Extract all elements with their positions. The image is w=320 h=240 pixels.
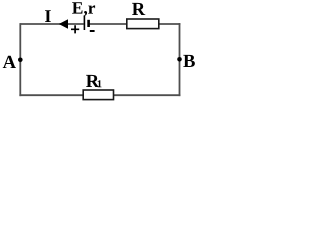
battery minus sign [90, 30, 95, 32]
wire: right side through node B [179, 23, 181, 96]
battery plus sign [71, 25, 79, 33]
battery: positive long plate [83, 16, 85, 30]
label R1 subscript 1 [98, 80, 102, 87]
label E,r (emf, internal resistance) [72, 2, 95, 16]
label I [45, 10, 51, 22]
wire: resistor R to top-right corner [159, 23, 181, 25]
battery: negative short plate [87, 20, 90, 27]
wire: top-left segment (corner to battery) [20, 23, 83, 25]
wire: R1 to bottom-right corner [113, 94, 180, 96]
node A junction dot [18, 58, 23, 63]
current arrow I (pointing left) [59, 19, 68, 28]
resistor R box [127, 19, 159, 29]
wire: left side through node A [19, 23, 21, 96]
node B junction dot [177, 57, 182, 62]
label R1 [86, 75, 99, 87]
label A [3, 56, 16, 68]
label R [132, 3, 145, 15]
resistor R1 box [83, 90, 113, 100]
wire: battery to resistor R [89, 23, 127, 25]
label B [183, 55, 195, 67]
wire: bottom-left segment (corner to R1) [19, 94, 83, 96]
